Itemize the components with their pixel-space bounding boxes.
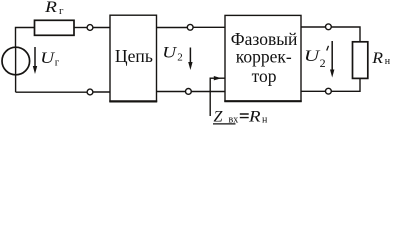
svg-text:U: U <box>40 49 55 67</box>
wire resistor Rн bottom to terminal 6 <box>331 79 360 92</box>
wire terminal 1 to box Цепь <box>93 27 110 29</box>
generator G1 (source circle) <box>2 47 30 75</box>
block A1 Цепь (two-port network) <box>110 15 157 101</box>
svg-text:R: R <box>248 107 261 125</box>
resistor Rн <box>353 42 368 79</box>
svg-text:коррек-: коррек- <box>236 47 292 67</box>
wire resistor Rг to terminal 1 <box>75 27 88 29</box>
wire box Фазовый корректор to terminal 5 (top right) <box>301 26 326 28</box>
terminal circle 3 <box>187 24 193 30</box>
svg-text:Z: Z <box>214 108 224 125</box>
wire through generator <box>15 47 17 92</box>
block A2 Фазовый корректор (phase corrector) <box>225 15 301 101</box>
wire terminal 6 to box Фазовый корректор bottom right <box>301 90 325 92</box>
wire box Цепь bottom to terminal 4 <box>157 91 186 93</box>
wire terminal 5 to resistor Rн branch <box>331 27 360 41</box>
wire box Цепь to terminal 3 (top) <box>157 27 188 29</box>
svg-text:вх: вх <box>229 114 239 125</box>
svg-text:2: 2 <box>320 56 326 70</box>
svg-text:тор: тор <box>252 66 277 86</box>
arrow U2 (voltage arrow down) <box>189 48 191 65</box>
svg-text:2: 2 <box>177 51 183 63</box>
arrow Uг (voltage arrow down) <box>34 47 36 68</box>
wire terminal 2 to box Цепь bottom <box>93 91 110 93</box>
wire top-left corner to resistor Rг <box>16 28 35 48</box>
resistor Rг <box>35 20 75 35</box>
svg-text:Цепь: Цепь <box>115 46 153 66</box>
terminal circle 5 <box>326 24 332 30</box>
svg-text:R: R <box>371 49 383 67</box>
svg-text:U: U <box>162 43 177 61</box>
svg-text:г: г <box>59 5 64 17</box>
svg-text:R: R <box>44 0 57 16</box>
arrow Zвх pointer to box input <box>210 77 225 79</box>
wire terminal 4 to box Фазовый корректор bottom <box>191 91 225 93</box>
terminal circle 2 (input bottom) <box>87 89 93 95</box>
svg-text:н: н <box>262 114 268 125</box>
terminal circle 1 (input top) <box>87 25 93 31</box>
wire bottom-left rail <box>16 91 87 93</box>
svg-text:U: U <box>304 48 321 66</box>
svg-text:н: н <box>385 56 391 67</box>
terminal circle 6 <box>326 88 332 94</box>
terminal circle 4 <box>186 89 192 95</box>
wire terminal 3 to box Фазовый корректор <box>193 26 225 28</box>
arrow U2' (voltage arrow down) <box>331 41 333 71</box>
svg-text:г: г <box>55 57 60 69</box>
